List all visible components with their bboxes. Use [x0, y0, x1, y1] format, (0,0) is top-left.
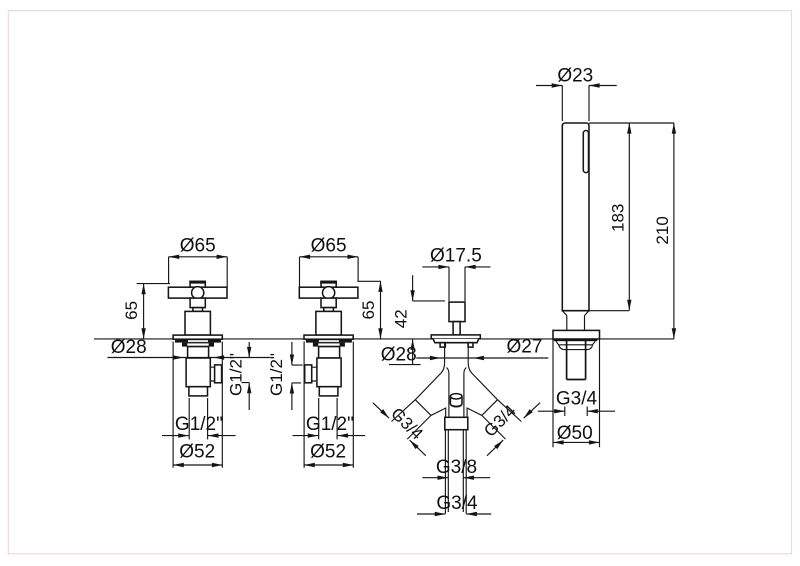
svg-text:G1/2": G1/2" — [227, 353, 246, 396]
lock nut V1 — [182, 343, 214, 347]
dimension G3/4 shower — [538, 389, 615, 417]
body lower V2 — [317, 358, 341, 387]
svg-text:210: 210 — [653, 216, 672, 244]
holder flange — [553, 330, 600, 339]
handle cross bar V1 — [168, 287, 227, 298]
extension lines Ø50 — [553, 339, 600, 447]
threaded pipe — [567, 340, 586, 380]
handle cap V2 — [321, 281, 336, 287]
svg-text:183: 183 — [608, 204, 627, 232]
deck flange V2 — [304, 335, 353, 339]
bottom tail V2 — [319, 387, 338, 396]
dimension Ø65 V2 — [300, 235, 359, 287]
handle cap V1 — [190, 281, 205, 287]
body upper V1 — [188, 347, 209, 358]
diverter group — [373, 245, 549, 516]
svg-text:G1/2": G1/2" — [306, 414, 354, 435]
bottom tail V1 — [189, 387, 208, 396]
svg-text:Ø28: Ø28 — [381, 345, 417, 366]
svg-text:65: 65 — [122, 301, 141, 320]
diverter body — [445, 343, 469, 363]
diverter tabs — [440, 343, 445, 347]
183 reference line — [589, 310, 629, 312]
Y body outer left — [415, 362, 445, 417]
svg-text:G1/2": G1/2" — [267, 353, 286, 396]
diverter knob — [449, 302, 465, 322]
handle neck V2 — [324, 308, 334, 312]
body lower V1 — [186, 358, 210, 387]
extension lines G1/2 V2 — [319, 398, 337, 439]
handle hub circle V2 — [323, 287, 335, 299]
dimension G3/4 right arm — [480, 400, 540, 456]
svg-text:G3/4: G3/4 — [436, 493, 478, 514]
dimension Ø52 V1 — [173, 441, 222, 467]
svg-text:Ø28: Ø28 — [111, 337, 147, 358]
svg-text:G1/2": G1/2" — [175, 414, 223, 435]
dimension 42 — [391, 275, 444, 364]
top reference line — [589, 122, 674, 124]
lock nut V2 — [313, 343, 345, 347]
svg-text:Ø52: Ø52 — [179, 441, 215, 462]
svg-text:42: 42 — [391, 309, 410, 328]
svg-text:G3/4: G3/4 — [387, 404, 426, 443]
svg-text:Ø27: Ø27 — [507, 336, 543, 357]
handle body V2 — [321, 298, 336, 308]
extension lines G1/2 V1 — [189, 398, 207, 439]
valve V1 group — [107, 235, 270, 467]
svg-text:Ø23: Ø23 — [557, 66, 593, 87]
svg-text:G3/8: G3/8 — [436, 457, 477, 478]
dimension G3/4 bottom — [417, 493, 491, 516]
handle neck V1 — [193, 308, 203, 312]
dimension 210 — [653, 123, 676, 339]
valve stem V2 — [316, 311, 341, 335]
dimension 65 height V2 — [357, 281, 382, 339]
body upper V2 — [319, 347, 340, 358]
hand shower group — [536, 66, 676, 448]
seal ring V2 — [306, 339, 352, 342]
shower wand — [562, 123, 589, 311]
central tube — [447, 368, 467, 418]
svg-text:G3/4: G3/4 — [556, 389, 598, 410]
svg-text:Ø17.5: Ø17.5 — [430, 245, 482, 266]
svg-text:Ø52: Ø52 — [310, 441, 346, 462]
dimension G1/2 side V2 — [267, 342, 303, 410]
handle cross bar V2 — [299, 287, 358, 298]
collar — [445, 417, 468, 429]
dimension G1/2 bottom V1 — [162, 414, 236, 438]
wand taper — [562, 311, 589, 331]
svg-text:Ø65: Ø65 — [311, 235, 347, 256]
Y body outer right — [467, 362, 497, 417]
dimension Ø17.5 — [422, 245, 490, 301]
svg-text:G3/4: G3/4 — [480, 401, 519, 440]
dome nut — [556, 341, 595, 345]
extension lines Ø52 V2 — [304, 342, 353, 468]
deck flange V1 — [173, 335, 222, 339]
tail pipes — [445, 430, 466, 514]
dimension Ø23 — [536, 66, 617, 121]
side outlet V2 — [312, 367, 317, 381]
side outlet V1 — [210, 367, 214, 381]
dimension 65 height V1 — [122, 284, 170, 339]
dimension 183 — [608, 123, 631, 310]
valve V2 group — [267, 235, 383, 467]
dimension G1/2 bottom V2 — [293, 414, 366, 438]
dimension G3/8 — [422, 457, 490, 480]
svg-text:Ø65: Ø65 — [180, 235, 216, 256]
dimension Ø28 diverter and Ø27 — [381, 336, 549, 365]
dimension G1/2 side V1 — [227, 342, 252, 410]
valve stem V1 — [185, 311, 210, 335]
dimension Ø28 V1 — [107, 337, 270, 360]
svg-text:Ø50: Ø50 — [557, 423, 593, 444]
dimension Ø65 V1 — [169, 235, 228, 287]
seal ring V1 — [175, 339, 221, 342]
seal band shower — [554, 339, 598, 341]
spout nozzle — [450, 396, 462, 406]
dimension Ø52 V2 — [304, 441, 353, 467]
deck line — [94, 338, 674, 340]
diverter stem — [453, 322, 460, 335]
diverter flange lip — [433, 339, 479, 343]
dimension G3/4 left arm — [373, 400, 431, 456]
wand button slot — [583, 131, 588, 173]
svg-text:65: 65 — [359, 301, 378, 320]
handle body V1 — [190, 298, 205, 308]
dimension Ø50 — [553, 423, 600, 445]
diverter flange — [431, 335, 480, 339]
extension lines Ø52 V1 — [173, 342, 222, 468]
handle hub circle V1 — [192, 287, 204, 299]
